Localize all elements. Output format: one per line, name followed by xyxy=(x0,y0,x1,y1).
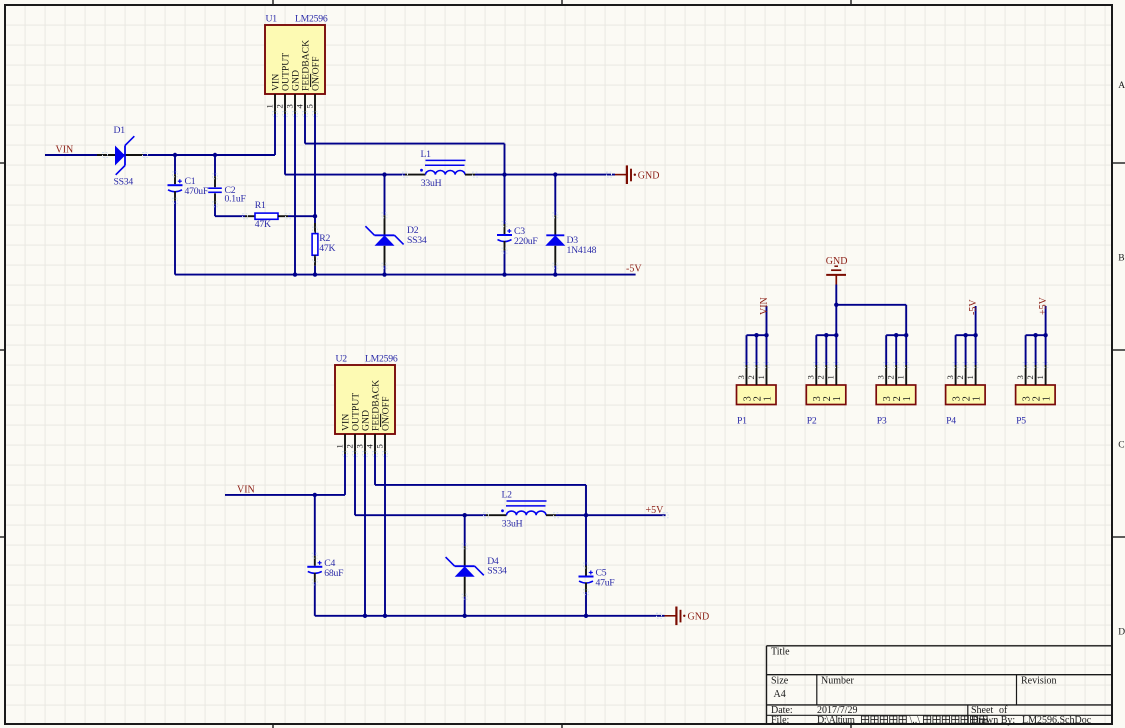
svg-text:R1: R1 xyxy=(255,200,266,211)
svg-text:GND: GND xyxy=(688,612,710,623)
svg-text:VIN: VIN xyxy=(759,297,770,315)
svg-text:LM2596: LM2596 xyxy=(295,14,328,25)
svg-text:P4: P4 xyxy=(946,415,956,426)
svg-text:File:: File: xyxy=(771,715,789,726)
svg-text:2: 2 xyxy=(746,375,756,379)
svg-text:D1: D1 xyxy=(114,125,126,136)
svg-text:1: 1 xyxy=(832,396,843,401)
svg-text:5: 5 xyxy=(374,444,384,448)
svg-text:SS34: SS34 xyxy=(114,177,134,188)
svg-text:+5V: +5V xyxy=(646,505,665,516)
svg-text:ON/OFF: ON/OFF xyxy=(311,56,322,91)
svg-text:2: 2 xyxy=(955,375,965,379)
svg-text:\..\: \..\ xyxy=(910,715,921,726)
svg-text:1: 1 xyxy=(896,375,906,379)
svg-text:ON/OFF: ON/OFF xyxy=(381,396,392,431)
svg-text:2: 2 xyxy=(1025,375,1035,379)
svg-text:SS34: SS34 xyxy=(407,235,427,246)
svg-text:C: C xyxy=(1118,441,1124,451)
svg-text:2: 2 xyxy=(816,375,826,379)
svg-text:470uF: 470uF xyxy=(185,186,209,197)
svg-text:+5V: +5V xyxy=(1038,296,1049,315)
svg-text:1: 1 xyxy=(965,375,975,379)
svg-text:2: 2 xyxy=(886,375,896,379)
svg-text:5: 5 xyxy=(304,104,314,108)
svg-text:1: 1 xyxy=(1035,375,1045,379)
svg-text:A: A xyxy=(1118,81,1125,91)
svg-text:47K: 47K xyxy=(319,243,335,254)
svg-text:P1: P1 xyxy=(737,415,747,426)
svg-text:P2: P2 xyxy=(807,415,817,426)
svg-text:B: B xyxy=(1118,254,1124,264)
svg-text:VIN: VIN xyxy=(237,484,255,495)
svg-text:A4: A4 xyxy=(774,689,786,700)
svg-text:U2: U2 xyxy=(336,354,348,365)
svg-text:L2: L2 xyxy=(502,490,513,501)
svg-text:1: 1 xyxy=(264,104,274,108)
svg-text:3: 3 xyxy=(945,375,955,379)
svg-text:3: 3 xyxy=(876,375,886,379)
svg-text:3: 3 xyxy=(1015,375,1025,379)
svg-text:GND: GND xyxy=(638,171,660,182)
svg-text:2: 2 xyxy=(274,104,284,108)
svg-text:P3: P3 xyxy=(877,415,887,426)
svg-text:LM2596.SchDoc: LM2596.SchDoc xyxy=(1022,715,1092,726)
svg-text:4: 4 xyxy=(364,444,374,449)
svg-text:U1: U1 xyxy=(266,14,278,25)
svg-text:1: 1 xyxy=(826,375,836,379)
svg-text:L1: L1 xyxy=(421,149,432,160)
svg-text:VIN: VIN xyxy=(56,145,74,156)
svg-text:47uF: 47uF xyxy=(596,578,616,589)
svg-text:33uH: 33uH xyxy=(421,178,442,189)
svg-text:2: 2 xyxy=(344,444,354,448)
svg-text:1: 1 xyxy=(971,396,982,401)
svg-text:-5V: -5V xyxy=(626,264,642,275)
svg-text:3: 3 xyxy=(806,375,816,379)
svg-text:SS34: SS34 xyxy=(487,566,507,577)
svg-text:220uF: 220uF xyxy=(514,236,538,247)
svg-text:3: 3 xyxy=(284,104,294,108)
svg-text:3: 3 xyxy=(354,444,364,448)
svg-text:1: 1 xyxy=(756,375,766,379)
svg-text:Title: Title xyxy=(771,646,790,657)
svg-text:1: 1 xyxy=(902,396,913,401)
svg-text:Size: Size xyxy=(771,676,789,687)
svg-text:68uF: 68uF xyxy=(324,568,344,579)
svg-text:33uH: 33uH xyxy=(502,519,523,530)
svg-text:-5V: -5V xyxy=(968,299,979,315)
svg-text:1N4148: 1N4148 xyxy=(567,245,597,256)
svg-text:47K: 47K xyxy=(255,219,271,230)
svg-text:1: 1 xyxy=(762,396,773,401)
svg-text:4: 4 xyxy=(294,104,304,109)
svg-text:D:\Altium_: D:\Altium_ xyxy=(817,715,861,726)
svg-text:P5: P5 xyxy=(1016,415,1026,426)
svg-text:D: D xyxy=(1118,628,1125,638)
svg-text:Number: Number xyxy=(821,676,854,687)
svg-text:0.1uF: 0.1uF xyxy=(225,194,247,205)
svg-text:1: 1 xyxy=(1041,396,1052,401)
svg-text:3: 3 xyxy=(736,375,746,379)
svg-text:1: 1 xyxy=(334,444,344,448)
svg-text:LM2596: LM2596 xyxy=(365,354,398,365)
svg-text:GND: GND xyxy=(826,256,848,267)
svg-text:Drawn By:: Drawn By: xyxy=(971,715,1015,726)
svg-text:Revision: Revision xyxy=(1021,676,1057,687)
